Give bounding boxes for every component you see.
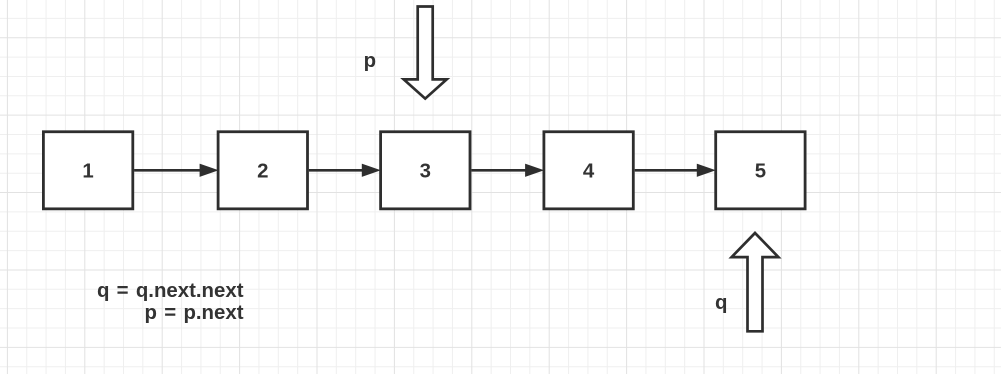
pointer q: big hollow up arrow below node 5 [732, 233, 779, 331]
node 5 box [716, 132, 805, 209]
svg-text:q = q.next.next: q = q.next.next [97, 280, 244, 302]
svg-text:q: q [715, 292, 727, 314]
wire: arrow node 3 to node 4 [471, 164, 542, 176]
svg-text:3: 3 [420, 161, 431, 183]
node 2 box [218, 132, 307, 209]
wire: arrow node 4 to node 5 [635, 164, 715, 176]
node 3 box [381, 132, 470, 209]
svg-text:4: 4 [583, 161, 595, 183]
node 1 box [43, 132, 132, 209]
svg-text:5: 5 [755, 161, 766, 183]
svg-text:p = p.next: p = p.next [145, 302, 244, 324]
pointer p: big hollow down arrow above node 3 [404, 7, 447, 99]
svg-text:p: p [364, 50, 376, 72]
svg-text:1: 1 [82, 161, 93, 183]
wire: arrow node 2 to node 3 [309, 164, 379, 176]
wire: arrow node 1 to node 2 [134, 164, 217, 176]
node 4 box [544, 132, 633, 209]
svg-text:2: 2 [257, 161, 268, 183]
